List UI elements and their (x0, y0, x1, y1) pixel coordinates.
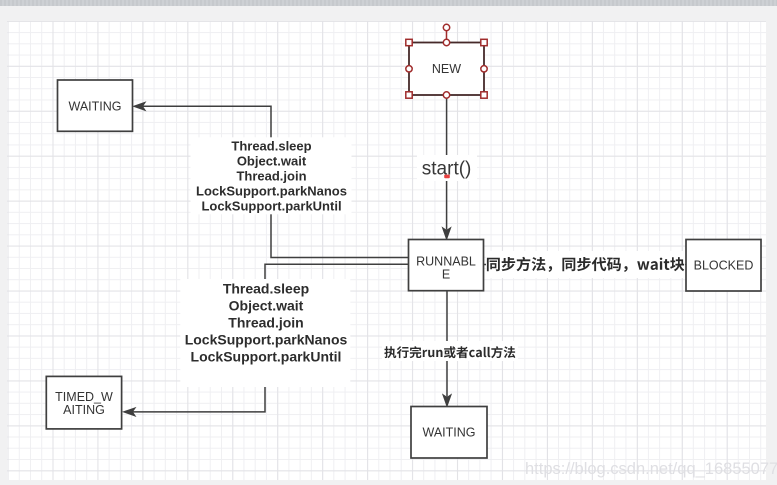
red edge-label anchor dot (444, 175, 450, 179)
state box NEW (selected) (409, 43, 484, 96)
svg-text:WAITING: WAITING (422, 426, 475, 440)
label 执行完run或者call方法 (382, 341, 518, 361)
wire RUNNABLE to BLOCKED (484, 260, 686, 268)
svg-text:BLOCKED: BLOCKED (694, 259, 754, 273)
svg-text:Thread.sleep: Thread.sleep (231, 139, 311, 154)
wire RUNNABLE to bottom WAITING (443, 291, 451, 406)
wire RUNNABLE to TIMED_WAITING (lower elbow) (124, 264, 409, 416)
state box BLOCKED (686, 240, 761, 292)
svg-text:LockSupport.parkNanos: LockSupport.parkNanos (196, 184, 347, 199)
svg-text:Object.wait: Object.wait (229, 298, 304, 314)
selection handles of NEW (406, 24, 487, 98)
svg-text:E: E (442, 268, 450, 282)
svg-text:AITING: AITING (63, 403, 105, 417)
state box WAITING (upper left) (58, 80, 133, 131)
state box WAITING (bottom) (411, 407, 487, 459)
svg-text:NEW: NEW (432, 62, 461, 76)
svg-text:TIMED_W: TIMED_W (55, 390, 113, 404)
label list Thread.sleep (lower, to TIMED_WAITING) (180, 279, 350, 387)
svg-text:Thread.join: Thread.join (228, 315, 303, 331)
svg-text:Object.wait: Object.wait (237, 154, 307, 169)
wire NEW to RUNNABLE (443, 96, 451, 240)
state box TIMED_WAITING (46, 376, 121, 429)
svg-text:WAITING: WAITING (68, 100, 121, 114)
svg-text:Thread.sleep: Thread.sleep (223, 281, 309, 297)
top scrollbar strip (0, 0, 777, 6)
svg-text:RUNNABL: RUNNABL (416, 255, 476, 269)
state box RUNNABLE (409, 240, 484, 291)
label start() (417, 155, 477, 181)
label 同步方法，同步代码，wait块 (486, 251, 685, 278)
svg-text:LockSupport.parkUntil: LockSupport.parkUntil (191, 349, 342, 365)
svg-text:https://blog.csdn.net/qq_16855: https://blog.csdn.net/qq_16855077 (525, 460, 777, 478)
label list Thread.sleep (upper, to WAITING) (191, 137, 352, 214)
svg-text:LockSupport.parkUntil: LockSupport.parkUntil (201, 199, 341, 214)
svg-text:Thread.join: Thread.join (236, 169, 306, 184)
wire RUNNABLE to WAITING (upper elbow) (134, 102, 409, 257)
svg-text:LockSupport.parkNanos: LockSupport.parkNanos (185, 332, 348, 348)
